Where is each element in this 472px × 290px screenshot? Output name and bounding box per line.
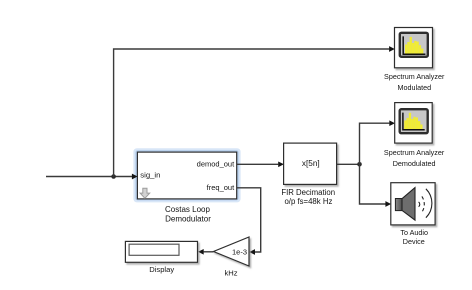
node input junction: [111, 174, 116, 179]
icon gray down arrow in Costas block: [140, 188, 150, 198]
svg-text:Modulated: Modulated: [398, 83, 432, 92]
arrowhead into Spectrum Analyzer Demodulated: [389, 120, 395, 126]
svg-text:Spectrum Analyzer: Spectrum Analyzer: [384, 72, 445, 81]
wire FIR output to junction: [337, 163, 360, 165]
block To Audio Device: [391, 183, 435, 225]
block Spectrum Analyzer Demodulated: [395, 103, 433, 144]
wire gain to display: [204, 251, 214, 253]
speaker sound arcs: [419, 202, 420, 207]
block Display: [125, 241, 197, 262]
svg-text:freq_out: freq_out: [207, 183, 235, 192]
arrowhead into FIR: [278, 161, 284, 167]
wire demod_out to FIR: [237, 163, 278, 165]
speaker driver box: [395, 199, 402, 211]
block gain 1e-3: [214, 237, 250, 266]
svg-text:Display: Display: [149, 265, 174, 274]
svg-text:Spectrum Analyzer: Spectrum Analyzer: [384, 148, 445, 157]
svg-text:demod_out: demod_out: [197, 159, 235, 168]
node FIR output junction: [357, 162, 362, 167]
svg-text:sig_in: sig_in: [140, 170, 160, 179]
block FIR Decimation: [284, 143, 337, 184]
svg-text:x[5n]: x[5n]: [302, 159, 320, 168]
svg-text:Device: Device: [403, 237, 425, 246]
svg-text:Demodulator: Demodulator: [165, 215, 211, 224]
block Costas Loop Demodulator selection glow: [133, 148, 240, 202]
wire input source segment: [46, 176, 132, 178]
arrowhead into sig_in: [132, 174, 138, 180]
arrowhead into gain (pointing left): [249, 249, 255, 255]
arrowhead into To Audio Device: [385, 201, 391, 207]
svg-text:FIR Decimation: FIR Decimation: [281, 188, 335, 197]
wire freq_out to gain: [237, 188, 261, 252]
wire junction down to To Audio Device: [360, 164, 386, 204]
display value window: [129, 244, 179, 255]
speaker cone: [402, 188, 415, 221]
svg-text:Demodulated: Demodulated: [393, 159, 436, 168]
wire junction up to Spectrum Analyzer Demodulated: [360, 123, 390, 164]
svg-text:To Audio: To Audio: [400, 228, 428, 237]
svg-text:1e-3: 1e-3: [232, 247, 247, 256]
block Spectrum Analyzer Modulated: [395, 28, 433, 68]
svg-text:kHz: kHz: [224, 268, 237, 277]
svg-text:Costas Loop: Costas Loop: [165, 205, 210, 214]
wire branch up to spectrum analyzer modulated: [114, 49, 390, 177]
arrowhead into Display (pointing left): [198, 249, 204, 255]
arrowhead into Spectrum Analyzer Modulated: [389, 46, 395, 52]
block Costas Loop Demodulator body: [137, 152, 236, 199]
svg-text:o/p fs=48k Hz: o/p fs=48k Hz: [284, 197, 332, 206]
